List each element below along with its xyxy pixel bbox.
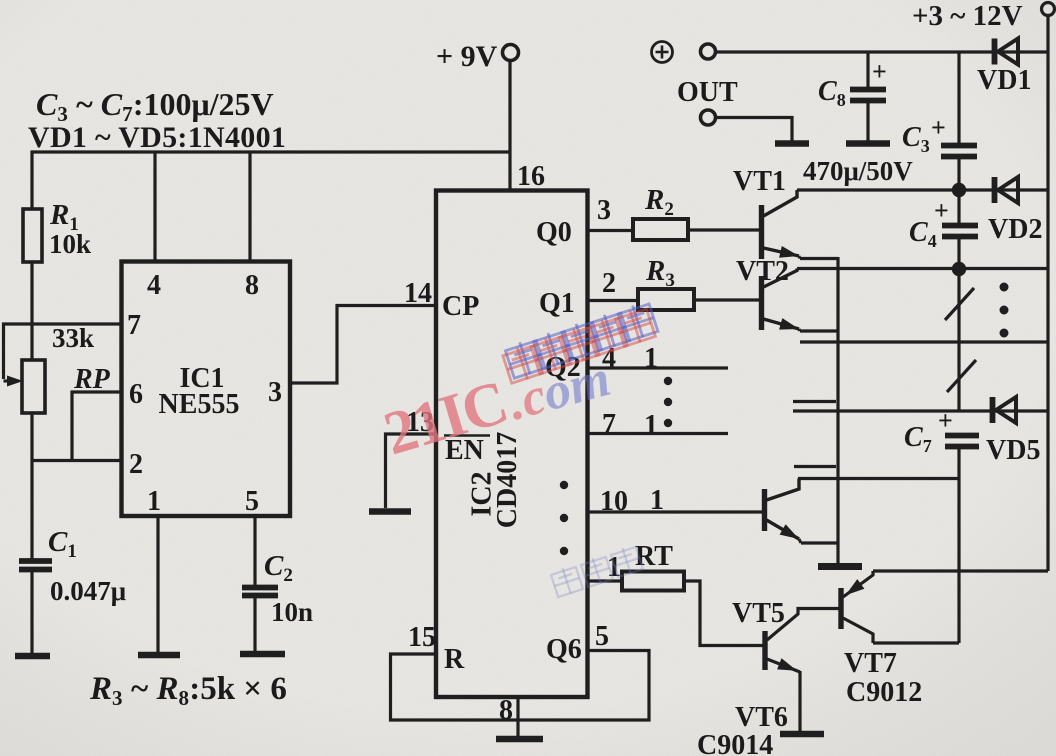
svg-text:NE555: NE555 xyxy=(159,389,240,420)
wire VT1 collector row xyxy=(797,188,959,191)
wire to IC1 pin8 xyxy=(248,152,251,262)
break slash xyxy=(945,288,974,320)
svg-text:6: 6 xyxy=(129,379,143,410)
svg-text:15: 15 xyxy=(408,622,436,653)
svg-text:VD1: VD1 xyxy=(977,65,1031,96)
resistor R3 xyxy=(638,289,694,310)
wire R2 to VT1 base xyxy=(688,228,759,231)
capacitor C8 xyxy=(866,52,869,87)
svg-text:3: 3 xyxy=(268,377,282,408)
wire C1 to ground xyxy=(30,572,33,653)
emitter stub VT2 xyxy=(800,329,838,332)
ground C8 xyxy=(846,140,890,147)
op-amp IC1 NE555 box xyxy=(122,262,291,517)
IC2 rotated name xyxy=(467,471,498,516)
wire IC1 pin1 to ground xyxy=(156,516,159,652)
svg-text:CP: CP xyxy=(442,291,479,322)
wire OUT- to ground xyxy=(716,118,792,142)
wire RP to C1 xyxy=(30,413,33,560)
ground bar emitter bus xyxy=(818,563,862,570)
svg-text:10n: 10n xyxy=(271,597,313,627)
wire Q1 to R3 xyxy=(588,299,639,302)
transistor VT4 xyxy=(762,489,767,531)
wire omitted stage row with VD5 xyxy=(793,409,1048,412)
svg-text:1: 1 xyxy=(147,486,161,517)
svg-text:0.047μ: 0.047μ xyxy=(50,576,126,606)
svg-text:4: 4 xyxy=(147,270,161,301)
ground C2 xyxy=(240,651,285,658)
svg-text:Q0: Q0 xyxy=(536,217,572,248)
ground pin8 xyxy=(496,736,543,743)
svg-text:2: 2 xyxy=(602,268,616,299)
IC2 CD4017 box xyxy=(436,191,588,698)
wire IC1 pin3 to IC2 CP xyxy=(290,306,436,384)
svg-text:VD5: VD5 xyxy=(986,435,1040,466)
node VT2 collector junction xyxy=(952,262,966,276)
svg-text:VT1: VT1 xyxy=(733,166,786,197)
svg-text:+: + xyxy=(934,196,949,225)
svg-text:VT7: VT7 xyxy=(844,648,897,679)
wire omitted stage row xyxy=(800,340,1048,343)
ellipsis dots inside IC2 xyxy=(560,481,568,489)
ellipsis dots omitted diodes xyxy=(1000,283,1009,292)
svg-text:2: 2 xyxy=(129,449,143,480)
wire VT7 collector row xyxy=(873,641,959,644)
wire VT2 collector row xyxy=(797,267,1048,270)
svg-text:10k: 10k xyxy=(49,229,91,259)
svg-text:C3 ~ C7 :100μ/25V: C3 ~ C7 :100μ/25V xyxy=(36,86,274,126)
decorative watermark xyxy=(501,337,547,384)
wire +9V to IC2 pin16 xyxy=(508,61,511,191)
svg-text:VT5: VT5 xyxy=(732,598,785,629)
svg-text:470μ/50V: 470μ/50V xyxy=(803,156,913,186)
svg-text:33k: 33k xyxy=(52,323,94,353)
svg-text:VD2: VD2 xyxy=(988,214,1042,245)
wire Q0 to R2 xyxy=(588,229,634,232)
svg-text:R: R xyxy=(444,644,465,675)
ground VT5 xyxy=(780,731,824,738)
svg-text:5: 5 xyxy=(595,621,609,652)
resistor RT xyxy=(622,572,684,591)
svg-text:Q6: Q6 xyxy=(546,634,582,665)
wire to R1 xyxy=(30,151,33,209)
wire R3 to VT2 base xyxy=(694,298,759,301)
emitter bus xyxy=(836,257,839,563)
diode VD2 xyxy=(992,177,998,203)
wire top-left supply rail xyxy=(31,150,511,153)
wire pin15 reset loop xyxy=(391,651,650,721)
wire IC1 pin6 xyxy=(72,392,122,460)
wire VT5 emitter to ground xyxy=(798,671,801,731)
wire pin7 stub xyxy=(588,432,729,435)
resistor R2 xyxy=(633,219,688,240)
ground C1 xyxy=(15,653,50,660)
svg-text:8: 8 xyxy=(499,695,513,726)
svg-text:RT: RT xyxy=(635,541,673,572)
wire to IC1 pin4 xyxy=(153,152,156,262)
wire right rail xyxy=(1046,16,1049,572)
wire pin10 to VT4 base xyxy=(588,510,763,513)
svg-text:7: 7 xyxy=(602,409,616,440)
svg-text:+: + xyxy=(931,113,946,142)
svg-text:+: + xyxy=(872,57,887,86)
node VT1 collector junction xyxy=(952,183,966,197)
potentiometer RP xyxy=(22,360,45,413)
wire RT to VT5 base xyxy=(684,581,763,646)
emitter stub VT1 xyxy=(800,257,838,260)
emitter stub omitted xyxy=(794,465,836,468)
wire IC1 pin2 xyxy=(31,459,122,462)
svg-text:16: 16 xyxy=(517,161,545,192)
wire top bus xyxy=(716,50,1049,53)
emitter stub VT4 xyxy=(801,541,838,544)
emitter stub omitted xyxy=(793,400,836,403)
svg-text:VD1 ~ VD5:1N4001: VD1 ~ VD5:1N4001 xyxy=(28,121,286,154)
plus symbol xyxy=(652,42,673,63)
svg-text:C9014: C9014 xyxy=(697,730,773,756)
wire C3 chain top xyxy=(957,52,960,143)
svg-text:7: 7 xyxy=(127,310,141,341)
ground OUT xyxy=(775,140,809,147)
terminal OUT+ xyxy=(701,44,716,59)
wire IC1 pin5 to C2 xyxy=(253,516,256,585)
wire pin1 to RT xyxy=(588,579,623,582)
svg-text:14: 14 xyxy=(404,278,432,309)
wire pin8 to ground xyxy=(516,697,519,736)
resistor R1 xyxy=(23,209,42,262)
svg-text:C9012: C9012 xyxy=(846,677,922,708)
RP wiper arrow xyxy=(4,379,15,382)
svg-text:CD4017: CD4017 xyxy=(492,432,523,528)
wire R1 to RP xyxy=(30,262,33,360)
svg-text:8: 8 xyxy=(245,270,259,301)
svg-text:1: 1 xyxy=(644,410,658,441)
diode VD5 xyxy=(990,397,996,423)
terminal OUT- xyxy=(701,110,716,125)
svg-text:5: 5 xyxy=(245,486,259,517)
svg-text:VT6: VT6 xyxy=(735,702,788,733)
ground pin1 xyxy=(138,652,180,659)
svg-text:+ 9V: + 9V xyxy=(436,40,498,73)
svg-text:Q1: Q1 xyxy=(539,288,575,319)
svg-text:OUT: OUT xyxy=(677,77,738,108)
svg-text:+3 ~ 12V: +3 ~ 12V xyxy=(912,0,1023,32)
wire pin13 to ground xyxy=(386,434,437,508)
diode VD1 xyxy=(992,39,998,65)
svg-text:RP: RP xyxy=(73,364,111,395)
ground pin13 xyxy=(369,508,411,515)
svg-text:3: 3 xyxy=(597,195,611,226)
break slash xyxy=(947,360,976,392)
wire VT7 emitter row xyxy=(873,569,1048,572)
wire Q2 stub xyxy=(588,366,729,369)
ellipsis dots xyxy=(664,377,672,385)
wire IC1 pin7 xyxy=(4,324,122,379)
wire VT4 collector row xyxy=(798,477,959,480)
